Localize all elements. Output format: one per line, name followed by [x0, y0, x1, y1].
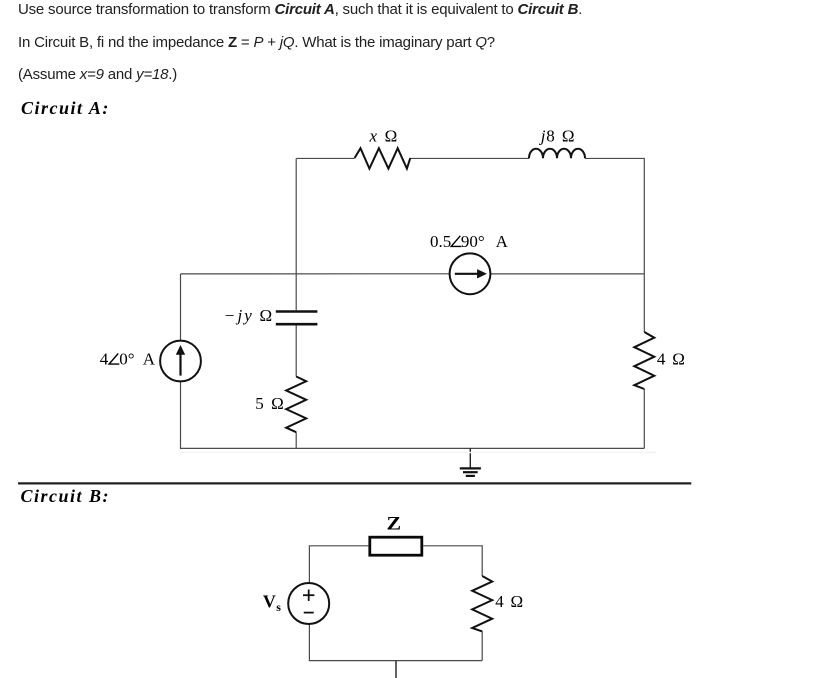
svg-text:A: A [496, 232, 509, 251]
wire right vertical lower [643, 389, 645, 448]
ground bar 3 [466, 475, 475, 477]
svg-text:4: 4 [495, 592, 504, 611]
wire B ground stem [395, 661, 397, 678]
svg-text:Ω: Ω [672, 349, 685, 368]
capacitor C1 top plate [276, 310, 318, 313]
svg-text:4: 4 [100, 349, 109, 368]
svg-text:Ω: Ω [562, 127, 575, 146]
svg-text:5: 5 [255, 394, 263, 413]
svg-text:s: s [276, 600, 281, 614]
inductor j8-ohm [529, 149, 585, 159]
wire middle left of current source [181, 273, 450, 275]
wire middle right of current source [490, 273, 644, 275]
svg-text:Ω: Ω [511, 592, 524, 611]
svg-text:0.5: 0.5 [430, 232, 451, 251]
svg-text:Ω: Ω [260, 306, 273, 325]
wire ground stem [469, 448, 471, 468]
wire top-left segment [296, 157, 354, 159]
wire capacitor to 5ohm resistor [295, 326, 297, 377]
svg-text:y: y [242, 306, 252, 325]
wire B top-left [309, 546, 368, 583]
svg-text:x: x [369, 126, 378, 145]
current source I2 0.5A circle [450, 253, 491, 294]
svg-text:Ω: Ω [271, 394, 284, 413]
wire top-mid segment between resistor and inductor [410, 157, 529, 159]
wire left stem of capacitor branch [295, 158, 297, 310]
resistor R 4-ohm (right vertical) [634, 332, 654, 389]
svg-text:−: − [225, 306, 235, 325]
capacitor C1 bottom plate [276, 323, 318, 326]
label Circuit A [21, 99, 110, 117]
svg-text:Z: Z [387, 515, 402, 535]
impedance Z box [370, 537, 422, 555]
plus sign of Vs [303, 590, 314, 613]
faint artifact line under circuit A [180, 452, 656, 454]
wire B bottom rail [309, 660, 482, 662]
wire B right lower [481, 631, 483, 660]
separator line [18, 482, 691, 484]
minus sign of Vs [304, 612, 314, 614]
wire left branch below source I1 [180, 381, 182, 449]
svg-text:0°: 0° [119, 349, 134, 368]
wire 5ohm resistor to bottom [295, 432, 297, 449]
ground bar 1 [460, 467, 481, 469]
svg-text:Ω: Ω [385, 126, 398, 145]
resistor R x-ohm (top horizontal) [355, 148, 411, 168]
wire top-right segment and right vertical upper [585, 158, 644, 332]
svg-text:j: j [539, 127, 546, 146]
svg-text:90°: 90° [461, 232, 485, 251]
problem text line 2 [18, 35, 495, 50]
arrow of current source I2 (right) [455, 273, 478, 275]
label Circuit B [21, 487, 111, 505]
resistor R 5-ohm (middle vertical) [286, 377, 306, 433]
angle symbol of 4 label [109, 354, 119, 365]
wire left branch above source I1 [180, 274, 182, 341]
source Vs circle [288, 583, 329, 624]
resistor R 4-ohm (circuit B) [472, 576, 492, 631]
arrow of current source I1 (up) [176, 269, 487, 376]
svg-text:A: A [143, 349, 156, 368]
svg-text:8: 8 [546, 127, 555, 146]
svg-text:V: V [263, 591, 276, 611]
problem text line 1 [18, 2, 582, 17]
wire B left lower [308, 624, 310, 661]
current source I1 4A circle [160, 341, 201, 382]
svg-text:4: 4 [657, 349, 666, 368]
problem text line 3 [18, 67, 177, 82]
wire B top-right [423, 546, 482, 576]
wire bottom rail [181, 447, 645, 449]
angle symbol of 0.5 label [109, 236, 461, 364]
ground bar 2 [463, 471, 478, 473]
svg-text:j: j [236, 306, 243, 325]
